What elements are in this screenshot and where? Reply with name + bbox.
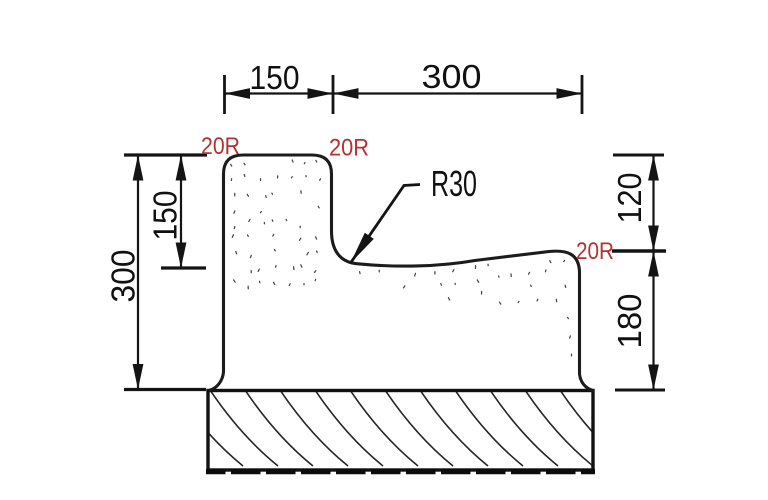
concrete stipple dots xyxy=(231,160,572,356)
svg-text:300: 300 xyxy=(422,58,482,95)
dimension 300 left xyxy=(137,155,139,390)
arrowheads top xyxy=(225,88,583,99)
right extension lines xyxy=(612,155,666,390)
svg-text:150: 150 xyxy=(250,59,300,96)
svg-text:300: 300 xyxy=(105,250,142,303)
svg-text:150: 150 xyxy=(147,191,184,241)
R30 leader line xyxy=(351,185,421,264)
svg-text:20R: 20R xyxy=(201,133,240,160)
profile outline xyxy=(210,155,593,391)
dimension line top xyxy=(225,92,583,94)
dimension 150 left inner xyxy=(180,155,182,268)
foundation hatch xyxy=(140,390,628,466)
foundation outline xyxy=(206,391,595,472)
svg-text:180: 180 xyxy=(611,294,648,349)
svg-text:20R: 20R xyxy=(576,238,614,265)
svg-text:120: 120 xyxy=(611,173,648,224)
dimension 120 right xyxy=(652,155,654,390)
dimension 150/300 top extension ticks xyxy=(225,75,583,114)
svg-text:20R: 20R xyxy=(329,135,369,162)
svg-text:R30: R30 xyxy=(431,163,477,204)
left extension lines xyxy=(124,155,207,390)
